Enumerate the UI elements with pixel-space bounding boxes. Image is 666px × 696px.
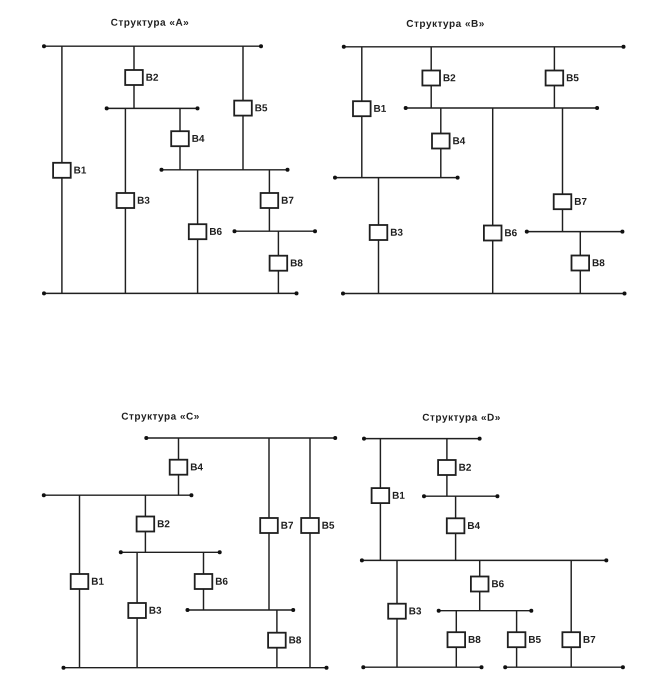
node: C busbar 3 (119, 550, 222, 554)
breaker B1 (C) (71, 574, 104, 589)
title: Структура «С» (C) (122, 413, 199, 422)
breaker B4 (D) (447, 518, 480, 533)
breaker B1 (D) (372, 488, 405, 503)
breaker B3 (A) (117, 193, 150, 208)
wire: B-B2 vertical (430, 47, 432, 108)
breaker B2 (A) (125, 70, 158, 85)
wire: B-B1 vertical (361, 47, 363, 178)
node: A busbar 3 (160, 168, 290, 172)
node: B top busbar (342, 45, 626, 49)
wire: C-B8 vertical (276, 610, 278, 668)
breaker B5 (C) (301, 518, 334, 533)
wire: C-B1 vertical (79, 495, 81, 668)
wire: C-B3 vertical (136, 552, 138, 667)
wire: D-B1 vertical (379, 439, 381, 561)
node: D busbar 2 (422, 494, 499, 498)
node: D bottom-left busbar (361, 665, 483, 669)
breaker B7 (B) (554, 194, 587, 209)
node: D busbar 4 (437, 609, 534, 613)
breaker B7 (D) (562, 632, 595, 647)
breaker B7 (A) (261, 193, 294, 208)
wire: B-B3 vertical (378, 178, 380, 294)
node: B bottom busbar (341, 292, 627, 296)
breaker B7 (C) (260, 518, 293, 533)
node: D top busbar (362, 437, 482, 441)
wire: A-B7 vertical (268, 170, 270, 231)
breaker B3 (C) (128, 603, 161, 618)
node: D bottom-right busbar (503, 665, 625, 669)
breaker B2 (C) (137, 517, 170, 532)
title: Структура «В» (B) (407, 20, 484, 29)
node: C busbar 2 (42, 493, 194, 497)
breaker B2 (D) (438, 460, 471, 475)
node: B busbar 2 (404, 106, 599, 110)
wire: A-B8 vertical (277, 231, 279, 293)
wire: C-B6 vertical (203, 552, 205, 610)
wire: A-B2 vertical (133, 46, 135, 108)
breaker B3 (B) (370, 225, 403, 240)
node: A busbar 2 (105, 106, 200, 110)
breaker B3 (D) (388, 604, 421, 619)
node: B busbar 4 (525, 230, 625, 234)
wire: C-B2 vertical (144, 495, 146, 552)
breaker B4 (B) (432, 134, 465, 149)
breaker B8 (B) (572, 256, 605, 271)
wire: B-B7 vertical (562, 108, 564, 232)
wire: D-B8 vertical (455, 611, 457, 668)
breaker B8 (A) (270, 256, 303, 271)
wire: B-B4 vertical (440, 108, 442, 178)
node: D busbar 3 (360, 558, 608, 562)
breaker B4 (A) (171, 131, 204, 146)
wire: C-B7 vertical (268, 438, 270, 610)
breaker B8 (D) (448, 632, 481, 647)
node: C top busbar (144, 436, 337, 440)
node: A bottom busbar (42, 291, 299, 295)
wire: D-B7 vertical (570, 560, 572, 667)
wire: C-B4 vertical (178, 438, 180, 495)
wire: A-B4 vertical (179, 108, 181, 169)
wire: C-B5 vertical (309, 438, 311, 668)
breaker B5 (D) (508, 632, 541, 647)
breaker B4 (C) (170, 460, 203, 475)
wire: D-B5 vertical (516, 611, 518, 668)
node: B busbar 3 (333, 176, 460, 180)
title: Структура «D» (D) (423, 414, 500, 423)
breaker B1 (B) (353, 101, 386, 116)
breaker B6 (B) (484, 226, 517, 241)
breaker B2 (B) (422, 71, 455, 86)
breaker B6 (A) (189, 224, 222, 239)
breaker B6 (C) (195, 574, 228, 589)
wire: A-B6 vertical (197, 170, 199, 294)
breaker B5 (A) (234, 101, 267, 116)
node: C bottom busbar (62, 666, 329, 670)
wire: B-B6 vertical (492, 108, 494, 294)
wire: A-B5 vertical (242, 46, 244, 170)
title: Структура «А» (A) (111, 19, 188, 28)
breaker B5 (B) (546, 71, 579, 86)
node: A busbar 4 (233, 229, 318, 233)
breaker B1 (A) (53, 163, 86, 178)
breaker B6 (D) (471, 577, 504, 592)
wire: D-B2 vertical (446, 439, 448, 497)
node: A top busbar (42, 44, 263, 48)
wire: B-B5 vertical (553, 47, 555, 108)
node: C busbar 4 (186, 608, 296, 612)
wire: A-B3 vertical (124, 108, 126, 293)
wire: B-B8 vertical (579, 232, 581, 294)
wire: D-B4 vertical (455, 496, 457, 560)
wire: D-B3 vertical (396, 560, 398, 667)
breaker B8 (C) (268, 633, 301, 648)
wire: A-B1 vertical (61, 46, 63, 293)
wire: D-B6 vertical (479, 560, 481, 610)
